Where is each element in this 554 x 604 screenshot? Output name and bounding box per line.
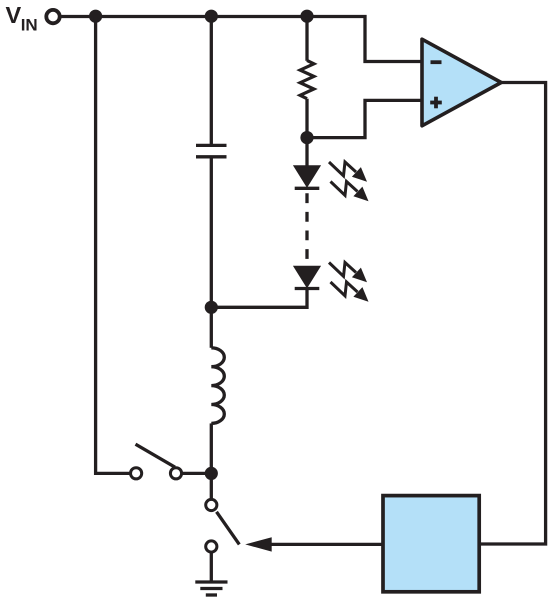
control block [383,496,479,592]
node A junction dot [89,10,102,23]
control arrowhead into switch S2 [245,537,272,551]
wire left branch down from node A [96,17,131,474]
wire node C to op-amp inverting input [307,17,422,62]
label VIN [6,2,38,34]
op-amp U1 [422,39,501,126]
node D junction dot [205,467,218,480]
switch S1 right contact [170,468,181,479]
wire node F to op-amp non-inverting input [307,100,422,137]
wire resistor to node F [305,99,308,138]
node E junction dot [205,301,218,314]
wire node D to switch S2 [210,473,213,499]
switch S2 top contact [206,499,217,510]
node F junction dot [300,131,313,144]
wire terminal to node A [62,15,96,18]
switch S1 left contact [131,468,142,479]
svg-text:IN: IN [21,15,38,34]
wire node E to LED cathode return [211,289,307,308]
op-amp minus sign [431,60,442,64]
wire control arrow to block [270,543,383,546]
op-amp plus sign [430,97,442,109]
input terminal circle [46,10,59,23]
switch S2 lever [217,512,240,545]
wire switch S2 to ground [210,552,213,581]
feedback wire op-amp output to control block [479,83,545,545]
wire node E down to inductor [210,307,213,348]
svg-text:V: V [6,2,22,28]
wire node B down to capacitor [210,17,213,146]
switch S1 lever [136,444,176,467]
capacitor C1 [196,145,227,156]
LED D2 light emission arrows [329,263,369,302]
LED D2 [295,267,320,289]
ground [195,582,227,595]
wire switch S1 to node D [182,472,211,475]
wire inductor to node D [210,423,213,473]
resistor R1 [300,60,314,98]
wire node F to LED D1 anode [305,138,308,167]
switch S2 bottom contact [206,541,217,552]
wire node A to node B [96,15,212,18]
LED D1 light emission arrows [329,162,369,201]
node C junction dot [300,10,313,23]
wire node B to node C [211,15,307,18]
inductor L1 [211,348,224,424]
wire capacitor to node E [210,157,213,307]
LED D1 [295,166,320,188]
node B junction dot [205,10,218,23]
dashed wire LED string [305,188,308,266]
wire node C down to resistor [305,17,308,61]
